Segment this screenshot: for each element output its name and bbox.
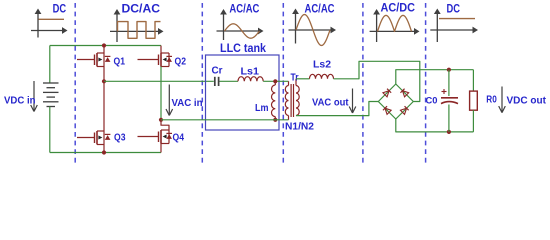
junction node B (bridge output right): [159, 118, 163, 122]
svg-text:Q1: Q1: [114, 57, 126, 68]
wire Ls1 to Lm node: [263, 80, 288, 82]
waveform box 4 axes (AC/AC): [289, 9, 337, 44]
junction C0 top: [447, 68, 451, 72]
stage separator dashed line 2: [201, 3, 203, 163]
junction node A (bridge output left): [102, 79, 106, 83]
label AC/AC (tank out): [305, 1, 335, 15]
wire Q3 drain from node A: [103, 81, 105, 131]
LLC tank boundary box: [206, 55, 280, 130]
wire Q4 source: [160, 144, 162, 153]
wire Q2 source to node B (crosses mid rail): [160, 67, 162, 120]
wire battery top lead: [49, 46, 51, 84]
waveform box 3 sine: [225, 24, 260, 38]
diode D4 (bottom-right arm): [400, 106, 408, 114]
label DC (output): [447, 1, 461, 15]
label VDC out: [507, 94, 547, 106]
waveform box 4 sine: [296, 15, 330, 46]
inductor Lm (magnetizing): [272, 85, 276, 117]
wire Q2 drain: [160, 46, 162, 54]
svg-text:Lm: Lm: [255, 103, 269, 114]
svg-text:Tr: Tr: [291, 72, 299, 83]
transformer Tr primary winding: [285, 81, 288, 120]
waveform box 2 square wave: [118, 22, 161, 39]
junction node top rail / Q1 drain: [102, 43, 106, 47]
label DC/AC: [122, 1, 161, 15]
label AC/AC (tank in): [229, 1, 259, 15]
svg-text:AC/AC: AC/AC: [305, 1, 335, 15]
wire R0 top lead: [472, 70, 474, 91]
label R0: [486, 94, 497, 105]
wire secondary bottom to bridge AC2: [296, 102, 378, 116]
label VAC out: [312, 96, 349, 108]
svg-text:C0: C0: [426, 95, 438, 106]
wire Lm top lead: [274, 81, 276, 85]
svg-text:Ls2: Ls2: [313, 60, 331, 71]
stage separator dashed line 1: [74, 3, 76, 163]
label Ls2: [313, 60, 331, 71]
wire LLC bottom return (node B to transformer): [161, 119, 289, 121]
label Q1: [114, 57, 126, 68]
wire Ls2 to bridge AC1: [334, 61, 420, 101]
junction bottom rail / Q3 source: [102, 150, 106, 154]
transistor Q2 (NMOS high-side right): [138, 53, 173, 67]
VAC in arrow: [166, 85, 173, 116]
transistor Q4 (NMOS low-side right): [138, 130, 173, 144]
label VAC in: [172, 97, 203, 109]
svg-text:Ls1: Ls1: [241, 67, 260, 78]
wire R0 bottom lead: [472, 110, 474, 132]
label Tr: [291, 72, 299, 83]
junction Lm top: [273, 79, 277, 83]
transistor Q1 (NMOS high-side left): [77, 53, 110, 67]
label Cr: [212, 66, 223, 77]
wire Cr to Ls1: [220, 80, 239, 82]
diode D3 (bottom-left arm): [383, 106, 391, 114]
svg-text:VAC in: VAC in: [172, 97, 203, 109]
stage separator dashed line 5: [425, 3, 427, 163]
label DC (input): [53, 1, 67, 15]
resistor R0: [470, 91, 478, 110]
svg-text:LLC tank: LLC tank: [220, 43, 267, 55]
wire Q1 drain: [103, 46, 105, 54]
transformer Tr secondary winding: [296, 79, 299, 116]
wire Q3 source: [103, 145, 105, 153]
waveform box 6 axes (DC output): [430, 9, 478, 43]
label Lm: [255, 103, 269, 114]
label Q2: [175, 57, 187, 68]
svg-text:AC/AC: AC/AC: [229, 1, 259, 15]
inductor Ls2: [310, 74, 334, 79]
wire battery bottom lead: [49, 107, 51, 153]
wire Q1 source to mid node A: [103, 67, 105, 82]
label VDC in: [4, 94, 36, 106]
wire mid rail node A to Cr: [104, 80, 214, 82]
label Ls1: [241, 67, 260, 78]
svg-text:AC/DC: AC/DC: [381, 1, 416, 15]
VDC in current arrow: [31, 81, 38, 112]
transistor Q3 (NMOS low-side left): [77, 131, 110, 145]
wire top rail (battery + to Q1/Q2 drains): [50, 45, 161, 47]
waveform box 3 axes (AC/AC): [217, 9, 264, 40]
VAC out arrow: [349, 89, 356, 114]
waveform box 1 DC level: [39, 18, 65, 20]
svg-text:VAC out: VAC out: [312, 96, 349, 108]
svg-text:Q2: Q2: [175, 57, 187, 68]
waveform box 5 rectified humps: [378, 15, 412, 31]
waveform box 2 axes (DC/AC): [110, 9, 164, 42]
wire Lm bottom lead: [274, 117, 276, 120]
svg-text:DC: DC: [53, 1, 67, 15]
wire bridge DC- to output return: [396, 119, 474, 132]
label C0: [426, 95, 438, 106]
transformer Tr core: [291, 84, 293, 117]
svg-text:N1/N2: N1/N2: [285, 122, 314, 133]
rectifier bridge diamond wires: [378, 84, 413, 119]
stage separator dashed line 3: [282, 3, 284, 163]
svg-text:VDC in: VDC in: [4, 94, 36, 106]
label Q3: [114, 133, 126, 144]
label AC/DC: [381, 1, 416, 15]
waveform box 1 axes (DC input): [31, 9, 68, 38]
wire C0 top lead: [448, 70, 450, 96]
capacitor Cr: [215, 77, 219, 86]
inductor Ls1: [238, 77, 263, 82]
battery BT1 (VDC in source): [43, 83, 59, 107]
svg-text:DC/AC: DC/AC: [122, 1, 161, 15]
wire bottom rail (battery - to Q3/Q4 sources): [50, 152, 161, 154]
junction C0 bottom: [447, 130, 451, 134]
label N1/N2: [285, 122, 314, 133]
svg-text:Cr: Cr: [212, 66, 223, 77]
waveform box 5 axes (AC/DC): [370, 9, 420, 42]
diode D2 (top-right arm): [400, 89, 408, 97]
svg-text:R0: R0: [486, 94, 497, 105]
diode D1 (left-top): [383, 89, 391, 97]
stage separator dashed line 4: [362, 3, 364, 163]
wire C0 bottom lead: [448, 105, 450, 132]
junction Lm bottom: [273, 118, 277, 122]
svg-text:Q4: Q4: [173, 133, 185, 144]
label Q4: [173, 133, 185, 144]
svg-text:DC: DC: [447, 1, 461, 15]
label LLC tank: [220, 43, 267, 55]
VDC out arrow: [499, 87, 506, 113]
wire Q4 drain jog from node B: [161, 120, 169, 130]
svg-text:VDC out: VDC out: [507, 94, 547, 106]
capacitor C0 (polarized): [441, 89, 458, 104]
waveform box 6 DC level: [439, 18, 475, 20]
wire secondary top to Ls2: [296, 78, 310, 80]
svg-text:Q3: Q3: [114, 133, 126, 144]
wire bridge DC+ to output rail: [396, 70, 474, 84]
